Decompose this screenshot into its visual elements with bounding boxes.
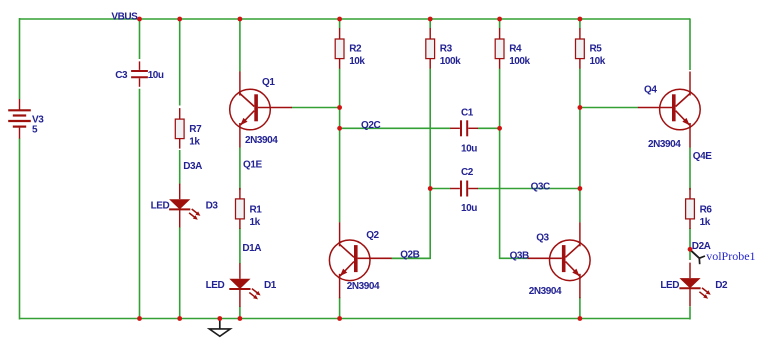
wire net D3A (R7 to D3) — [179, 150, 181, 185]
wire R5 down to Q3 collector — [579, 68, 581, 222]
label C2 — [461, 167, 474, 178]
net label Q4E — [693, 151, 712, 162]
wire battery branch upper — [19, 18, 21, 99]
svg-text:LED: LED — [151, 201, 170, 212]
svg-text:Q2: Q2 — [366, 230, 379, 241]
ground — [209, 319, 230, 337]
label R6 — [700, 205, 713, 216]
wire Q1 base to node — [292, 107, 340, 109]
resistor R6 — [686, 188, 695, 229]
wire R7 branch upper — [179, 19, 181, 106]
LED D3 — [169, 184, 200, 228]
svg-text:10k: 10k — [590, 56, 606, 67]
svg-text:D1A: D1A — [242, 243, 261, 254]
value R6 — [700, 217, 711, 228]
wire Q1 collector to VBUS — [239, 19, 241, 72]
value Q2 2N3904 — [347, 281, 380, 292]
value R1 — [250, 217, 261, 228]
label LED D3 — [151, 201, 170, 212]
svg-text:R6: R6 — [700, 205, 713, 216]
wire net D1A (R1 to D1) — [239, 228, 241, 264]
LED D2 — [679, 263, 710, 307]
label V3 — [32, 114, 44, 125]
value C1 — [461, 143, 477, 154]
wire net Q2B horizontal — [391, 257, 430, 259]
wire VBUS top rail — [20, 18, 691, 20]
node C2 / R3 junction — [428, 186, 433, 191]
label R1 — [250, 205, 263, 216]
net label D3A — [183, 161, 202, 172]
label Q3 — [536, 232, 549, 243]
label D2 — [715, 280, 728, 291]
resistor R7 — [175, 108, 184, 149]
net label D1A — [242, 243, 261, 254]
LED D1 — [229, 263, 260, 307]
wire C2 left stub — [430, 188, 450, 190]
svg-text:C3: C3 — [115, 70, 128, 81]
node junction on VBUS at x=579.9 — [578, 17, 583, 22]
net label D2A — [692, 241, 711, 252]
node junction on VBUS at x=430.2 — [428, 17, 433, 22]
wire net Q3B riser and horizontal — [500, 128, 528, 258]
svg-text:5: 5 — [32, 125, 38, 136]
transistor Q2 (2N3904 NPN) — [329, 222, 391, 298]
net label Q3C — [531, 181, 550, 192]
node junction on ground rail at x=179.7 — [177, 316, 182, 321]
svg-text:LED: LED — [206, 280, 225, 291]
wire C3 branch lower — [139, 89, 141, 319]
value Q3 2N3904 — [529, 286, 562, 297]
wire net D2A (R6 to probe node) — [689, 228, 691, 260]
wire R4 down to C1 node — [499, 68, 501, 128]
label R4 — [509, 44, 522, 55]
label C3 — [115, 70, 128, 81]
node C1 / R4 junction — [497, 126, 502, 131]
svg-text:LED: LED — [660, 280, 679, 291]
value R3 — [440, 56, 461, 67]
wire battery branch lower — [19, 138, 21, 319]
net label Q2B — [400, 249, 419, 260]
node Q3C junction — [578, 186, 583, 191]
value R5 — [590, 56, 606, 67]
svg-text:R7: R7 — [189, 124, 202, 135]
node junction on ground rail at x=219.8 — [217, 316, 222, 321]
label LED D1 — [206, 280, 225, 291]
node junction on VBUS at x=179.7 — [177, 17, 182, 22]
svg-text:1k: 1k — [189, 137, 200, 148]
svg-text:D3A: D3A — [183, 161, 202, 172]
value C2 — [461, 203, 477, 214]
node junction on VBUS at x=499.6 — [497, 17, 502, 22]
net label Q2C — [361, 120, 380, 131]
wire Q4 base horizontal — [580, 107, 638, 109]
label R5 — [590, 44, 603, 55]
svg-text:D1: D1 — [264, 280, 277, 291]
transistor Q1 (2N3904 NPN) — [230, 72, 292, 148]
svg-text:R5: R5 — [590, 44, 603, 55]
label R3 — [440, 44, 453, 55]
svg-text:volProbe1: volProbe1 — [706, 249, 755, 263]
resistor R5 — [576, 28, 585, 69]
svg-text:C2: C2 — [461, 167, 474, 178]
label Q2 — [366, 230, 379, 241]
svg-text:100k: 100k — [509, 56, 530, 67]
capacitor C3 — [131, 61, 148, 86]
wire Q2 emitter to ground rail — [339, 297, 341, 318]
svg-text:Q4E: Q4E — [693, 151, 712, 162]
battery V3 (5V voltage source) — [8, 99, 31, 139]
resistor R4 — [495, 28, 504, 69]
wire C3 branch upper — [139, 19, 141, 59]
svg-text:D3: D3 — [206, 201, 219, 212]
svg-text:10u: 10u — [461, 203, 477, 214]
svg-text:Q1E: Q1E — [243, 159, 262, 170]
node junction on VBUS at x=139.5 — [137, 17, 142, 22]
node Q1 base / R2 junction — [337, 105, 342, 110]
node junction on ground rail at x=239.9 — [238, 316, 243, 321]
svg-text:C1: C1 — [461, 108, 474, 119]
svg-text:10u: 10u — [461, 143, 477, 154]
svg-text:Q1: Q1 — [262, 77, 275, 88]
node junction on ground rail at x=339.6 — [337, 316, 342, 321]
svg-text:Q3B: Q3B — [510, 250, 529, 261]
svg-text:2N3904: 2N3904 — [245, 135, 278, 146]
wire Q3 emitter to ground rail — [579, 297, 581, 318]
node Q2C junction — [337, 126, 342, 131]
svg-text:D2: D2 — [715, 280, 728, 291]
wire ground bottom rail — [20, 318, 691, 320]
svg-text:10k: 10k — [349, 56, 365, 67]
node Q4 base / R5 junction — [578, 105, 583, 110]
capacitor C1 — [450, 120, 478, 136]
svg-text:R4: R4 — [509, 44, 522, 55]
label LED D2 — [660, 280, 679, 291]
value V3 — [32, 125, 38, 136]
node junction on ground rail at x=579.9 — [578, 316, 583, 321]
node junction on VBUS at x=239.9 — [238, 17, 243, 22]
svg-text:1k: 1k — [700, 217, 711, 228]
value R4 — [509, 56, 530, 67]
svg-text:VBUS: VBUS — [111, 12, 138, 23]
node junction on VBUS at x=339.6 — [337, 17, 342, 22]
label C1 — [461, 108, 474, 119]
svg-text:Q2B: Q2B — [400, 249, 419, 260]
svg-text:100k: 100k — [440, 56, 461, 67]
wire net Q2C (to C1 left) — [340, 127, 451, 129]
label D1 — [264, 280, 277, 291]
value Q4 2N3904 — [648, 139, 681, 150]
value Q1 2N3904 — [245, 135, 278, 146]
svg-text:10u: 10u — [148, 70, 164, 81]
net label VBUS — [111, 12, 138, 23]
probe volProbe1 (voltage probe) — [691, 250, 705, 264]
wire R2 top stub — [339, 19, 341, 28]
svg-text:Q2C: Q2C — [361, 120, 380, 131]
svg-text:R1: R1 — [250, 205, 263, 216]
svg-text:R2: R2 — [349, 44, 362, 55]
wire Q4 collector from VBUS corner — [689, 19, 692, 70]
node D2A / probe junction — [688, 247, 693, 252]
wire net Q3C (C2 to R5 branch) — [478, 188, 580, 190]
wire net Q2B vertical — [391, 189, 430, 259]
wire D2 to ground rail corner — [689, 307, 691, 320]
resistor R3 — [426, 28, 435, 69]
wire net Q4E (Q4 emitter to R6) — [689, 147, 691, 189]
svg-text:2N3904: 2N3904 — [347, 281, 380, 292]
wire net Q1E (Q1 emitter to R1) — [239, 147, 241, 189]
net label Q3B — [510, 250, 529, 261]
svg-text:Q3: Q3 — [536, 232, 549, 243]
node junction on ground rail at x=139.5 — [137, 316, 142, 321]
wire R3 down to C2 node — [429, 68, 431, 188]
wire R2 to Q2 collector — [339, 68, 341, 222]
value C3 — [148, 70, 164, 81]
svg-text:2N3904: 2N3904 — [529, 286, 562, 297]
wire R3 top stub — [429, 19, 431, 28]
wire D1 to ground rail — [239, 307, 241, 319]
resistor R2 — [335, 28, 344, 69]
wire R5 top stub — [579, 19, 581, 28]
net label Q1E — [243, 159, 262, 170]
label Q4 — [644, 84, 657, 95]
label D3 — [206, 201, 219, 212]
label R7 — [189, 124, 202, 135]
svg-text:Q4: Q4 — [644, 84, 657, 95]
wire D3 to ground rail — [179, 227, 181, 319]
value R7 — [189, 137, 200, 148]
label Q1 — [262, 77, 275, 88]
wire C1 right to node — [478, 127, 500, 129]
svg-text:2N3904: 2N3904 — [648, 139, 681, 150]
resistor R1 — [236, 188, 245, 229]
capacitor C2 — [450, 181, 478, 197]
svg-text:1k: 1k — [250, 217, 261, 228]
transistor Q4 (2N3904 NPN) — [638, 72, 700, 148]
svg-text:Q3C: Q3C — [531, 181, 550, 192]
transistor Q3 (2N3904 NPN) — [528, 222, 590, 298]
svg-text:R3: R3 — [440, 44, 453, 55]
wire R4 top stub — [499, 19, 501, 28]
value R2 — [349, 56, 365, 67]
label volProbe1 — [706, 249, 755, 263]
label R2 — [349, 44, 362, 55]
